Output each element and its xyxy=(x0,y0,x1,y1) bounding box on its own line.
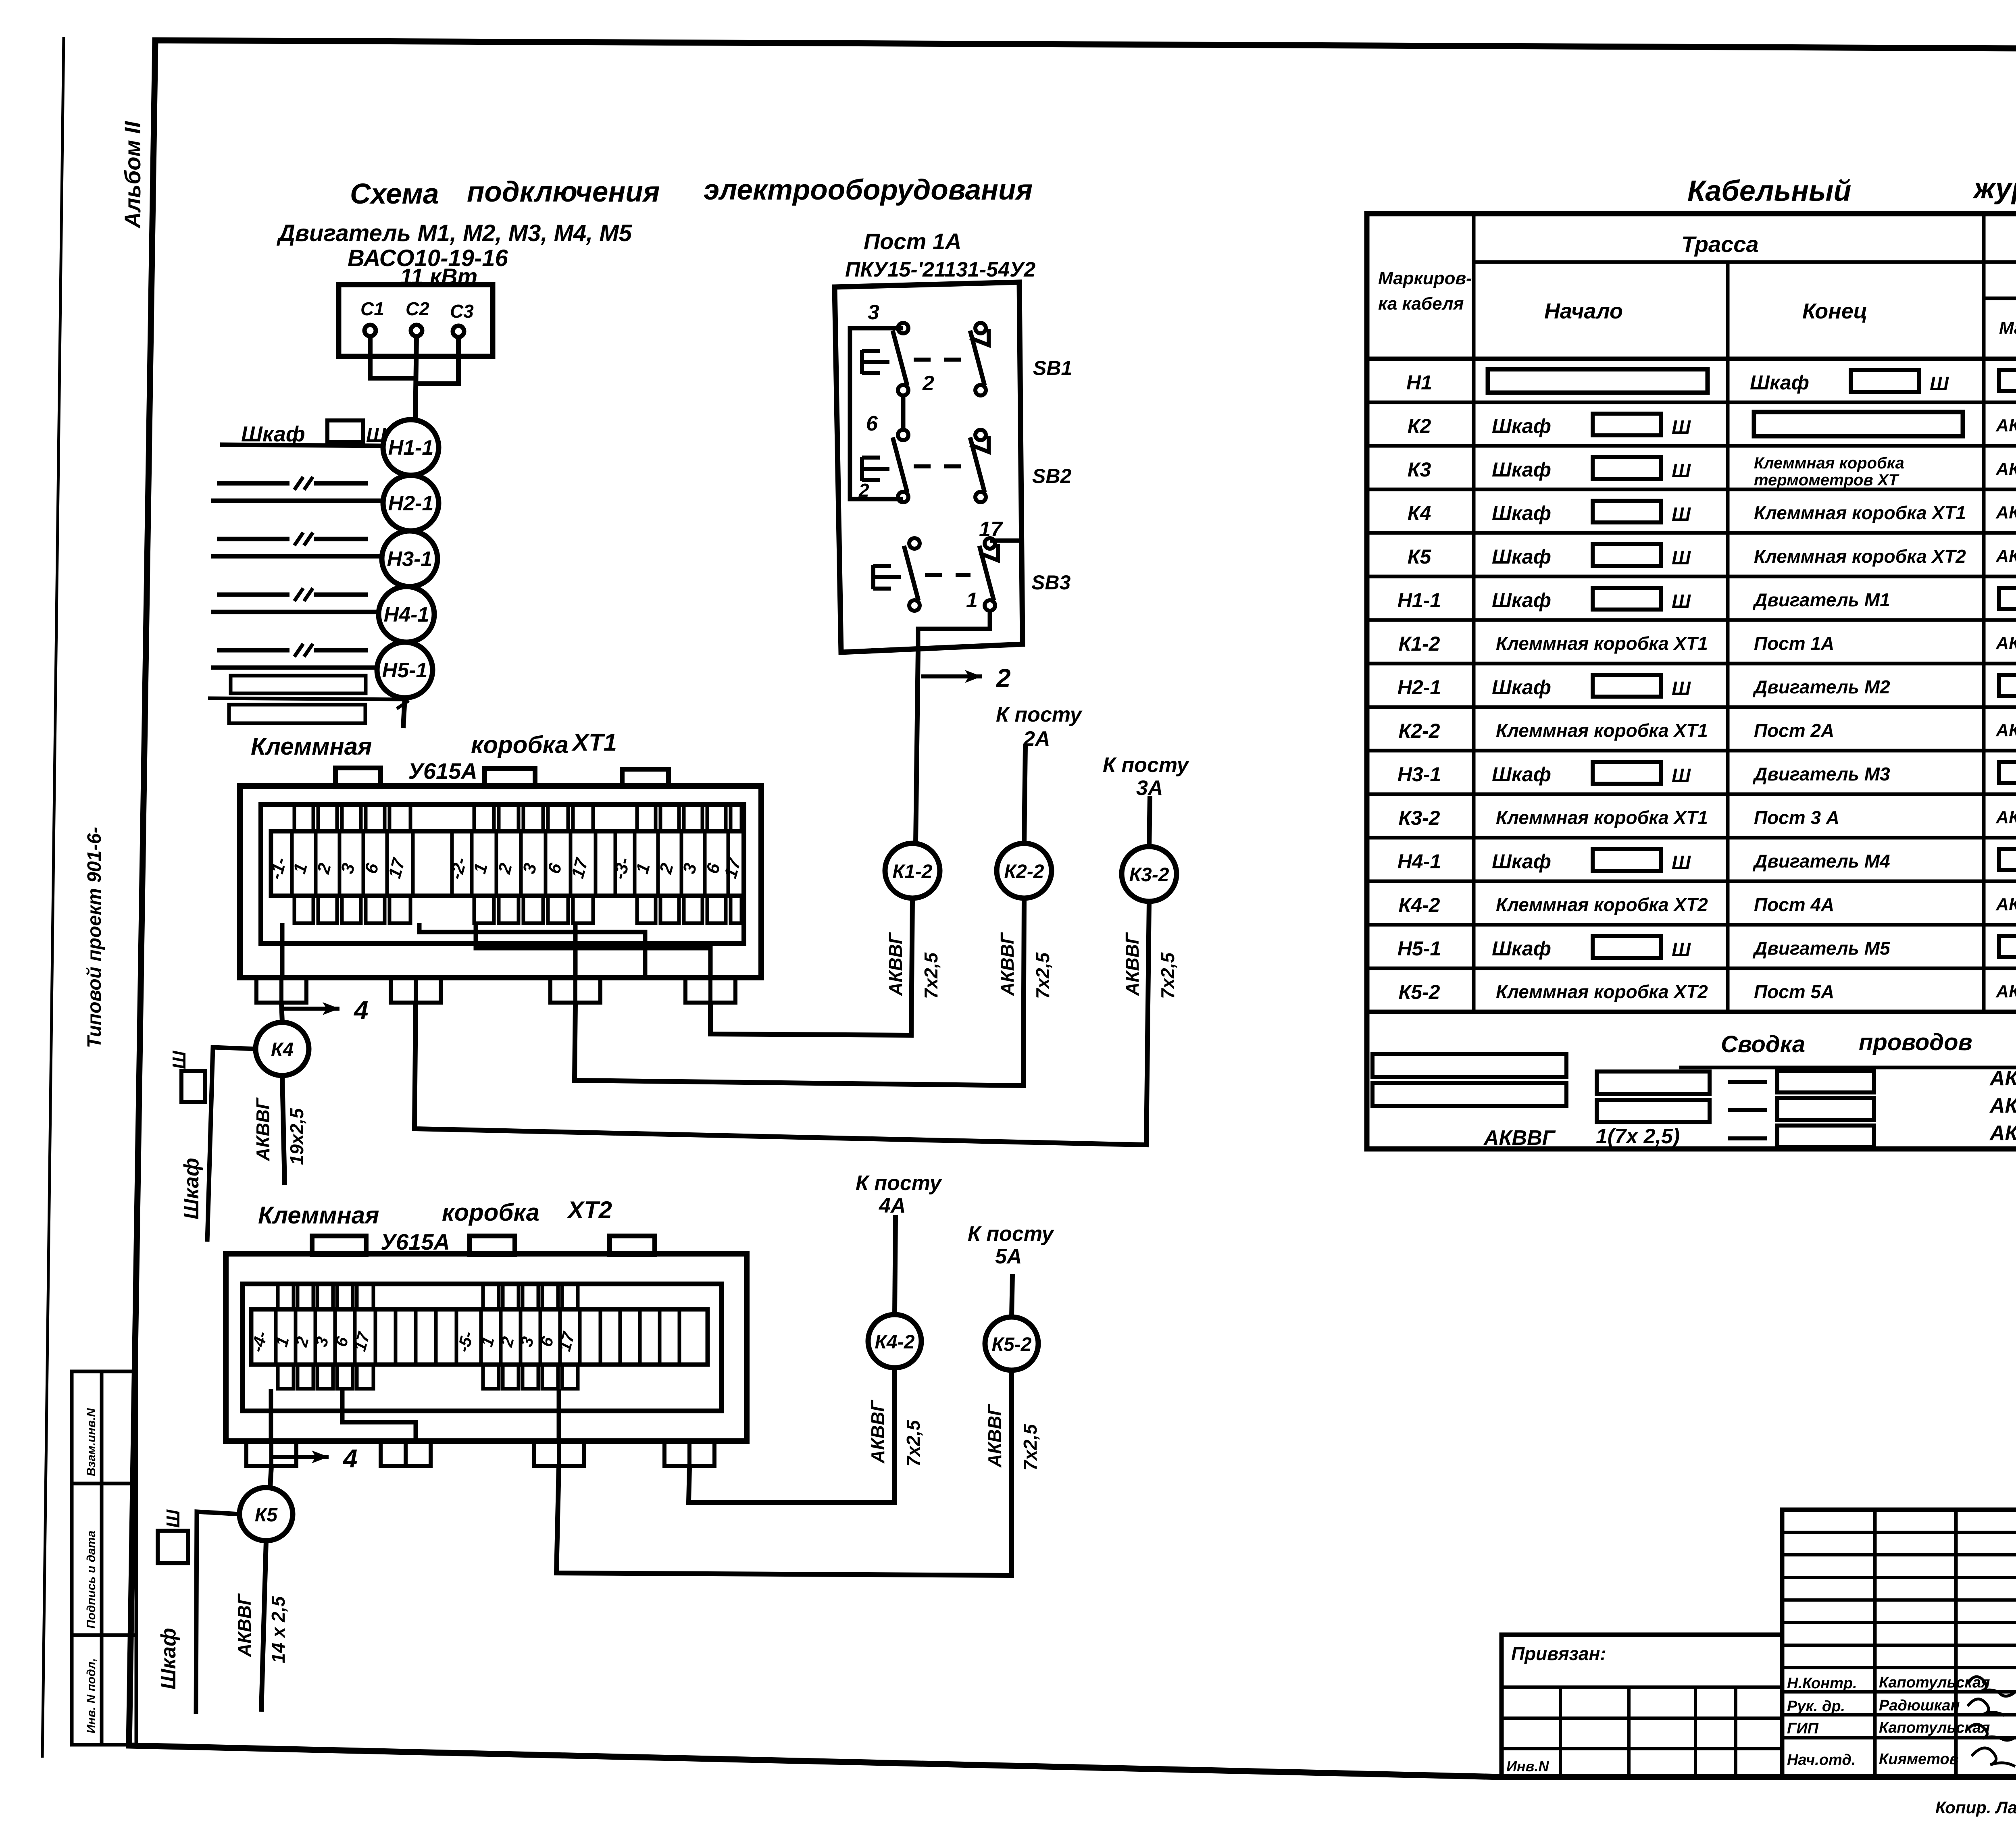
cable journal table xyxy=(1367,214,2016,1149)
row line 11 xyxy=(1367,836,2016,840)
svg-text:3: 3 xyxy=(868,301,879,324)
svg-text:К5-2: К5-2 xyxy=(1398,981,1440,1003)
row line 1 xyxy=(1367,401,2016,404)
cable mark 4 arrow (К5) xyxy=(272,1455,329,1459)
cabinet designation box xyxy=(327,420,363,442)
data bottom line xyxy=(1367,1010,2016,1014)
cable circle К2-2 xyxy=(997,843,1052,898)
svg-text:Шкаф: Шкаф xyxy=(1492,589,1551,612)
row К2 Конец empty box xyxy=(1754,412,1963,436)
svg-text:С2: С2 xyxy=(406,298,429,319)
post internal wire to exit xyxy=(918,611,990,650)
row line 6 xyxy=(1367,618,2016,622)
svg-text:Ш: Ш xyxy=(1930,373,1949,395)
row Н1-1 Марка box xyxy=(1999,588,2016,609)
XT1 inner housing xyxy=(261,805,744,943)
XT2 top tab 1 xyxy=(312,1236,366,1255)
XT2 internal wire C xyxy=(269,1389,273,1441)
row Н1 Начало empty box xyxy=(1488,369,1708,393)
row line 9 xyxy=(1367,749,2016,753)
svg-text:Клеммная: Клеммная xyxy=(251,733,372,760)
svg-text:электрооборудования: электрооборудования xyxy=(704,174,1033,206)
svg-text:АКВВГ 1(14х 2,5): АКВВГ 1(14х 2,5) xyxy=(1989,1094,2016,1117)
svg-text:7х2,5: 7х2,5 xyxy=(1020,1423,1041,1471)
wire К5 down xyxy=(261,1541,266,1712)
svg-text:Клеммная коробка ХТ2: Клеммная коробка ХТ2 xyxy=(1754,546,1966,567)
row line 8 xyxy=(1367,705,2016,709)
svg-text:7х2,5: 7х2,5 xyxy=(903,1419,924,1467)
XT2 top tab 3 xyxy=(610,1236,655,1255)
svg-text:Ш: Ш xyxy=(169,1051,190,1069)
svg-text:Клеммная коробка ХТ1: Клеммная коробка ХТ1 xyxy=(1496,807,1708,828)
XT2 bottom exit tab 4 xyxy=(664,1441,689,1466)
svg-text:Пост 4А: Пост 4А xyxy=(1754,894,1834,915)
svg-text:АКВВГ: АКВВГ xyxy=(1995,807,2016,827)
svg-text:АКВВГ: АКВВГ xyxy=(1995,416,2016,435)
svg-text:Ш: Ш xyxy=(162,1509,183,1528)
svg-text:АКВВГ: АКВВГ xyxy=(1995,982,2016,1001)
svg-text:ка кабеля: ка кабеля xyxy=(1378,294,1464,314)
XT1 top tab 1 xyxy=(335,768,381,787)
svg-text:АКВВГ: АКВВГ xyxy=(1122,932,1143,996)
svg-text:журнал: журнал xyxy=(1972,173,2016,205)
cable circle К4 xyxy=(256,1022,309,1076)
header row line 2 xyxy=(1984,297,2016,300)
XT1 upper terminal tabs xyxy=(294,805,313,831)
svg-text:АКВВГ: АКВВГ xyxy=(867,1400,888,1464)
switch SB3 xyxy=(909,538,920,549)
col Трасса|Кабель xyxy=(1982,214,1986,1012)
svg-text:Ш: Ш xyxy=(1672,417,1691,438)
svg-text:Двигатель М1, М2, М3, М4, М5: Двигатель М1, М2, М3, М4, М5 xyxy=(276,220,632,246)
upper duplicate-wire line for Н4-1 xyxy=(217,593,289,597)
svg-text:Шкаф: Шкаф xyxy=(157,1628,180,1689)
svg-text:ГИП: ГИП xyxy=(1787,1720,1819,1737)
terminal box XT2 outline xyxy=(226,1254,747,1441)
svg-text:АКВВГ: АКВВГ xyxy=(1995,633,2016,653)
svg-text:3А: 3А xyxy=(1136,776,1163,800)
XT2 bottom exit tab 3 xyxy=(534,1441,559,1466)
row line 4 xyxy=(1367,531,2016,535)
wire К4 down xyxy=(282,1076,285,1185)
svg-text:Привязан:: Привязан: xyxy=(1511,1643,1606,1664)
svg-text:Клеммная коробка: Клеммная коробка xyxy=(1754,454,1904,472)
svg-text:Инв.N: Инв.N xyxy=(1506,1758,1549,1775)
cable mark 4 arrow xyxy=(283,1007,339,1011)
XT1 bottom exit tab 3 xyxy=(550,978,575,1003)
motor M1-M5 terminal box xyxy=(339,285,493,356)
svg-text:2: 2 xyxy=(922,372,934,395)
svg-text:Н4-1: Н4-1 xyxy=(1397,850,1441,873)
svg-text:Двигатель М1: Двигатель М1 xyxy=(1752,589,1890,610)
svg-text:С3: С3 xyxy=(450,301,474,322)
XT2 bottom exit tab 2 xyxy=(381,1441,406,1466)
wire К4 to Шкаф xyxy=(207,1047,256,1242)
svg-text:АКВВГ: АКВВГ xyxy=(1483,1126,1556,1150)
row line 13 xyxy=(1367,923,2016,927)
svg-text:Двигатель М4: Двигатель М4 xyxy=(1752,851,1890,872)
svg-text:Шкаф: Шкаф xyxy=(1492,763,1551,786)
terminal C3 xyxy=(453,326,464,337)
row line 12 xyxy=(1367,880,2016,883)
svg-text:АКВВГ: АКВВГ xyxy=(1995,503,2016,522)
svg-text:К посту: К посту xyxy=(968,1222,1055,1246)
wire К5 to Шкаф xyxy=(196,1512,240,1714)
svg-text:термометров ХТ: термометров ХТ xyxy=(1754,471,1899,489)
svg-text:коробка: коробка xyxy=(471,731,569,758)
col Начало|Конец xyxy=(1726,262,1730,1012)
row Н1 Марка box xyxy=(1999,370,2016,391)
svg-text:4: 4 xyxy=(342,1444,358,1473)
svg-text:Н1-1: Н1-1 xyxy=(1397,589,1441,612)
cable circle Н2-1 xyxy=(383,475,439,531)
svg-text:Копир. Лаврухина: Копир. Лаврухина xyxy=(1935,1798,2016,1817)
svg-text:Н1: Н1 xyxy=(1406,371,1432,394)
svg-text:У615А: У615А xyxy=(381,1229,450,1255)
svg-text:К посту: К посту xyxy=(1103,753,1190,777)
svg-text:С1: С1 xyxy=(360,298,384,319)
upper duplicate-wire line for Н5-1 xyxy=(217,648,289,653)
cable circle К5-2 xyxy=(985,1317,1038,1370)
XT2 terminal strip xyxy=(251,1309,708,1365)
wire XT2 tab4 to К4-2 xyxy=(689,1368,895,1502)
terminal box XT1 outline xyxy=(240,786,761,978)
XT1 terminal strip xyxy=(271,831,744,896)
svodka empty box L2 xyxy=(1372,1083,1566,1106)
svodka mid box 1 xyxy=(1597,1072,1710,1094)
svg-text:Ш: Ш xyxy=(1672,547,1691,569)
XT1 internal wire C xyxy=(280,923,285,978)
svg-text:Н5-1: Н5-1 xyxy=(382,659,428,682)
svg-text:АКВВГ 1(10х2,5): АКВВГ 1(10х2,5) xyxy=(1989,1067,2016,1090)
lower wire line into Н2-1 xyxy=(211,499,383,503)
title block Привязан box xyxy=(1502,1635,1782,1777)
svg-text:Ш: Ш xyxy=(1672,504,1691,525)
svg-text:Пост 1А: Пост 1А xyxy=(1754,633,1834,654)
svg-text:17: 17 xyxy=(979,518,1003,541)
signatures xyxy=(1968,1677,2014,1696)
svodka dash xyxy=(1728,1080,1767,1084)
wire C3 to bus xyxy=(414,337,458,384)
cable circle К5 xyxy=(240,1488,293,1541)
svg-text:Ш: Ш xyxy=(1672,939,1691,961)
svg-text:Схема: Схема xyxy=(350,178,439,210)
svg-text:Начало: Начало xyxy=(1544,299,1623,323)
cable circle Н1-1 xyxy=(383,420,439,475)
svg-text:ХТ1: ХТ1 xyxy=(571,729,617,756)
svg-text:6: 6 xyxy=(866,412,878,435)
svodka empty box L1 xyxy=(1372,1054,1566,1077)
svg-text:Шкаф: Шкаф xyxy=(1492,545,1551,568)
cable circle Н4-1 xyxy=(379,587,434,642)
post internal link xyxy=(901,396,906,430)
XT1 bottom exit tab 2 xyxy=(391,978,416,1003)
svodka box R1 xyxy=(1777,1071,1874,1092)
svg-text:SB1: SB1 xyxy=(1033,357,1072,379)
cable circle Н3-1 xyxy=(382,531,437,587)
svg-text:Н.Контр.: Н.Контр. xyxy=(1787,1675,1857,1692)
svg-text:SB3: SB3 xyxy=(1031,571,1070,594)
svodka box R2 xyxy=(1777,1098,1874,1120)
svg-text:У615А: У615А xyxy=(408,758,477,784)
wire Шкаф to H1-1 xyxy=(220,445,383,446)
svg-text:Пост 3 А: Пост 3 А xyxy=(1754,807,1839,828)
svg-text:14 х 2,5: 14 х 2,5 xyxy=(268,1596,289,1663)
wire C2 down to H1-1 xyxy=(415,336,417,420)
svg-text:Ш: Ш xyxy=(1672,852,1691,874)
svg-text:Ш: Ш xyxy=(1672,765,1691,786)
svg-text:Шкаф: Шкаф xyxy=(241,422,305,446)
svg-text:Двигатель М2: Двигатель М2 xyxy=(1752,676,1890,697)
terminal C1 xyxy=(364,325,376,336)
svg-text:II: II xyxy=(120,121,145,134)
switch SB1 xyxy=(898,323,908,333)
wire XT1 tab1 down to К4 xyxy=(281,1003,282,1022)
svg-text:АКВВГ: АКВВГ xyxy=(997,932,1018,996)
XT2 internal wire B xyxy=(342,1389,416,1441)
svg-text:АКВВГ: АКВВГ xyxy=(234,1593,255,1657)
wire up from К5-2 to post 5А xyxy=(1012,1274,1012,1317)
svg-text:К4: К4 xyxy=(1408,502,1431,524)
svg-text:4А: 4А xyxy=(879,1194,906,1217)
svg-text:АКВВГ: АКВВГ xyxy=(1995,459,2016,479)
svg-text:АКВВГ: АКВВГ xyxy=(252,1097,273,1161)
svg-text:К4-2: К4-2 xyxy=(875,1332,915,1353)
svg-text:К3-2: К3-2 xyxy=(1398,807,1440,829)
XT1 bottom exit tab 1 xyxy=(256,978,281,1003)
row line 2 xyxy=(1367,444,2016,448)
svg-text:Н2-1: Н2-1 xyxy=(388,492,434,515)
svg-text:Инв. N подл,: Инв. N подл, xyxy=(85,1658,98,1733)
switch SB2 xyxy=(898,430,908,440)
cable circle К1-2 xyxy=(885,843,940,898)
post internal link 17 xyxy=(990,539,1022,543)
empty cable mark box 1 xyxy=(231,676,366,693)
svg-text:АКВВГ: АКВВГ xyxy=(1995,720,2016,740)
svg-text:АКВВГ: АКВВГ xyxy=(1995,546,2016,566)
svg-text:К2: К2 xyxy=(1408,415,1431,437)
svodka dash xyxy=(1728,1108,1767,1112)
cable circle К3-2 xyxy=(1122,847,1177,901)
svg-text:К4-2: К4-2 xyxy=(1398,894,1440,916)
svg-text:1(7х 2,5): 1(7х 2,5) xyxy=(1596,1125,1680,1148)
svg-text:К3-2: К3-2 xyxy=(1129,864,1169,886)
svg-text:Клеммная коробка ХТ1: Клеммная коробка ХТ1 xyxy=(1496,633,1708,654)
wire up from К2-2 to post 2А xyxy=(1024,746,1025,843)
svg-text:Клеммная: Клеммная xyxy=(258,1202,379,1229)
svg-text:Пост 2А: Пост 2А xyxy=(1754,720,1834,741)
wire up from К3-2 to post 3А xyxy=(1149,796,1150,847)
svg-text:Шкаф: Шкаф xyxy=(1492,458,1551,481)
post internal bus left xyxy=(850,328,903,499)
row line 5 xyxy=(1367,575,2016,578)
row Н3-1 Марка box xyxy=(1999,762,2016,783)
svg-text:Двигатель М5: Двигатель М5 xyxy=(1752,938,1891,959)
svg-text:Шкаф: Шкаф xyxy=(1492,850,1551,873)
svg-text:Шкаф: Шкаф xyxy=(1492,676,1551,699)
lower wire line into Н4-1 xyxy=(211,610,379,614)
XT1 top tab 2 xyxy=(485,768,535,787)
XT1 internal wire A xyxy=(419,923,645,978)
wire C1 to bus xyxy=(370,336,414,378)
svg-text:Н3-1: Н3-1 xyxy=(1397,763,1441,786)
svg-text:5А: 5А xyxy=(995,1245,1022,1268)
wire post 1А to К1-2 xyxy=(916,650,918,843)
margin stamp boxes xyxy=(72,1371,136,1745)
XT2 bottom exit tab 1 xyxy=(246,1441,271,1466)
svg-text:Взам.инв.N: Взам.инв.N xyxy=(85,1408,98,1476)
svg-text:Марка: Марка xyxy=(1999,318,2016,338)
svg-text:Шкаф: Шкаф xyxy=(180,1158,203,1219)
XT1 bottom exit tab 4 xyxy=(685,978,710,1003)
svg-text:АКВВГ: АКВВГ xyxy=(984,1404,1005,1468)
svg-text:проводов: проводов xyxy=(1859,1029,1972,1055)
XT1 lower terminal tabs xyxy=(294,896,313,923)
svg-text:Н3-1: Н3-1 xyxy=(387,547,433,571)
row line 10 xyxy=(1367,793,2016,796)
terminal C2 xyxy=(411,325,422,336)
upper duplicate-wire line for Н2-1 xyxy=(217,481,289,486)
svg-text:ПКУ15-'21131-54У2: ПКУ15-'21131-54У2 xyxy=(845,258,1035,281)
cable circle Н5-1 xyxy=(377,642,433,698)
XT1 internal wire B xyxy=(476,923,710,978)
svg-text:К1-2: К1-2 xyxy=(1398,632,1440,655)
wire below H5-1 xyxy=(208,698,404,699)
svg-text:Кабельный: Кабельный xyxy=(1687,175,1851,207)
svg-text:коробка: коробка xyxy=(442,1199,539,1226)
header bottom line xyxy=(1367,357,2016,361)
svg-text:АКВВГ: АКВВГ xyxy=(885,932,906,996)
svg-text:2А: 2А xyxy=(1023,727,1050,751)
XT2 inner housing xyxy=(243,1284,722,1411)
svg-text:Капотульская: Капотульская xyxy=(1879,1719,1990,1736)
XT2 lower terminal tabs xyxy=(278,1365,294,1389)
cabinet box (К5) xyxy=(158,1531,188,1563)
svg-text:К2-2: К2-2 xyxy=(1398,720,1440,742)
svg-text:Радюшкан: Радюшкан xyxy=(1879,1697,1960,1714)
svg-text:Кияметов: Кияметов xyxy=(1879,1751,1959,1768)
svg-text:К4: К4 xyxy=(271,1039,294,1061)
cable circle К4-2 xyxy=(868,1315,921,1368)
XT2 internal wire D xyxy=(557,1389,561,1441)
svg-text:Шкаф: Шкаф xyxy=(1492,502,1551,524)
row Н4-1 Марка box xyxy=(1999,849,2016,870)
wire XT2 tab3 to К5-2 xyxy=(556,1370,1012,1575)
svg-text:7х2,5: 7х2,5 xyxy=(1157,952,1178,999)
svg-text:К посту: К посту xyxy=(996,703,1083,726)
row line 14 xyxy=(1367,967,2016,970)
svg-text:Ш: Ш xyxy=(1672,678,1691,699)
svg-text:7х2,5: 7х2,5 xyxy=(921,952,941,999)
svg-text:Нач.отд.: Нач.отд. xyxy=(1787,1752,1856,1769)
svg-text:7х2,5: 7х2,5 xyxy=(1032,952,1053,999)
header row line 1 xyxy=(1474,260,2016,264)
svg-text:К5-2: К5-2 xyxy=(992,1334,1032,1355)
svg-text:подключения: подключения xyxy=(467,176,660,208)
svg-text:Сводка: Сводка xyxy=(1721,1031,1805,1057)
lower wire line into Н5-1 xyxy=(211,666,377,670)
svg-text:К5: К5 xyxy=(1408,545,1432,568)
svg-text:Альбом: Альбом xyxy=(120,140,145,229)
svg-text:Рук. др.: Рук. др. xyxy=(1787,1698,1845,1715)
svg-text:ХТ2: ХТ2 xyxy=(566,1196,612,1223)
svg-text:Ш: Ш xyxy=(1672,460,1691,482)
svg-text:Двигатель М3: Двигатель М3 xyxy=(1752,764,1890,784)
XT2 upper terminal tabs xyxy=(278,1284,294,1309)
svg-text:Н4-1: Н4-1 xyxy=(384,603,429,626)
row line 3 xyxy=(1367,488,2016,491)
svg-text:Типовой проект 901-6-: Типовой проект 901-6- xyxy=(84,827,105,1048)
svg-text:SB2: SB2 xyxy=(1032,465,1071,487)
svg-text:Ш: Ш xyxy=(1672,591,1691,612)
svg-text:Маркиров-: Маркиров- xyxy=(1378,268,1472,288)
row line 7 xyxy=(1367,662,2016,666)
XT1 top tab 3 xyxy=(622,769,669,787)
svg-text:Пост 1А: Пост 1А xyxy=(864,229,962,254)
svg-text:4: 4 xyxy=(353,996,369,1025)
svg-text:Шкаф: Шкаф xyxy=(1750,371,1809,394)
svg-text:2: 2 xyxy=(996,664,1011,693)
svg-text:19х2,5: 19х2,5 xyxy=(286,1108,307,1165)
svg-text:Клеммная коробка ХТ1: Клеммная коробка ХТ1 xyxy=(1754,502,1966,523)
svg-text:Трасса: Трасса xyxy=(1681,231,1759,257)
wire H5-1 down to XT1 xyxy=(403,698,405,728)
svg-text:1: 1 xyxy=(966,589,978,612)
svg-text:Н2-1: Н2-1 xyxy=(1397,676,1441,699)
paper trim edge line xyxy=(42,37,64,1758)
svodka box R3 xyxy=(1777,1126,1874,1147)
XT1 internal wire D xyxy=(573,923,578,978)
XT2 top tab 2 xyxy=(470,1236,515,1255)
row Н5-1 Марка box xyxy=(1999,936,2016,957)
svg-text:Клеммная коробка ХТ1: Клеммная коробка ХТ1 xyxy=(1496,720,1708,741)
title block stamp grid xyxy=(1782,1510,2016,1777)
upper duplicate-wire line for Н3-1 xyxy=(217,537,289,541)
col Маркировка right xyxy=(1472,214,1476,1012)
svg-text:Клеммная коробка ХТ2: Клеммная коробка ХТ2 xyxy=(1496,894,1708,915)
svodka dash xyxy=(1728,1136,1767,1140)
cable mark 2 arrow xyxy=(921,674,982,678)
svg-text:К3: К3 xyxy=(1408,458,1431,481)
svg-text:Н5-1: Н5-1 xyxy=(1397,937,1441,960)
svg-text:Шкаф: Шкаф xyxy=(1492,415,1551,437)
lower wire line into Н3-1 xyxy=(211,554,382,559)
push-button post 1А box xyxy=(835,282,1023,652)
wire XT2 tab1 down to К5 xyxy=(270,1466,271,1488)
row Н2-1 Марка box xyxy=(1999,675,2016,696)
cabinet box (К4) xyxy=(181,1071,205,1102)
svodka mid box 2 xyxy=(1597,1100,1710,1122)
svg-text:Подпись и дата: Подпись и дата xyxy=(85,1531,98,1629)
svg-text:Шкаф: Шкаф xyxy=(1492,937,1551,960)
svg-text:К1-2: К1-2 xyxy=(893,861,933,882)
empty cable mark box 2 xyxy=(229,705,365,723)
svg-text:АКВВГ 1 (19х 2,5): АКВВГ 1 (19х 2,5) xyxy=(1989,1121,2016,1145)
svg-text:Пост 5А: Пост 5А xyxy=(1754,981,1834,1002)
svg-text:Н1-1: Н1-1 xyxy=(388,436,434,460)
wire up from К4-2 to post 4А xyxy=(895,1215,896,1315)
wire XT1 tab3 to К2-2 xyxy=(575,898,1024,1086)
wire XT1 tab2 to К3-2 xyxy=(414,901,1149,1145)
svg-text:К посту: К посту xyxy=(856,1171,943,1195)
wire XT1 tab4 to К1-2 xyxy=(710,898,912,1035)
svg-text:Конец: Конец xyxy=(1802,299,1868,323)
svg-text:К2-2: К2-2 xyxy=(1004,861,1044,882)
svg-text:АКВВГ: АКВВГ xyxy=(1995,895,2016,914)
svg-text:К5: К5 xyxy=(255,1504,278,1526)
svg-text:Клеммная коробка ХТ2: Клеммная коробка ХТ2 xyxy=(1496,981,1708,1002)
